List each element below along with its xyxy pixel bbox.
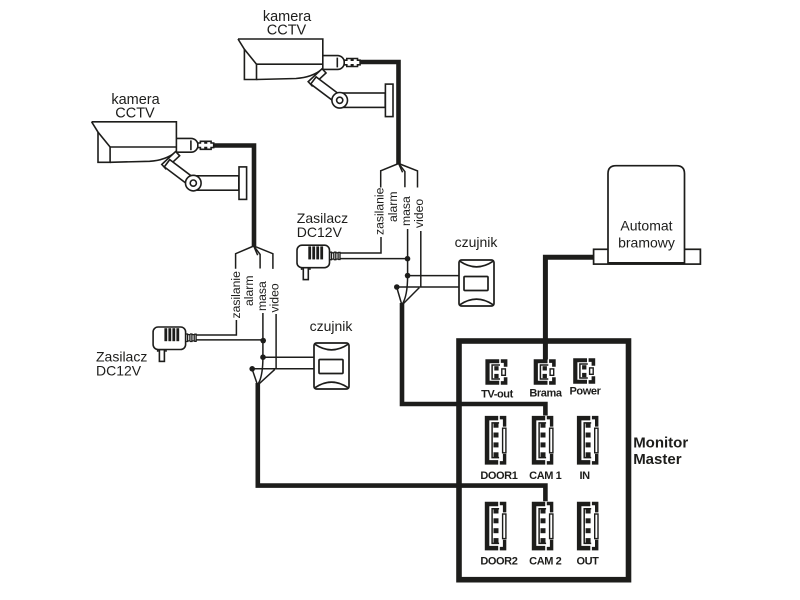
svg-text:DOOR2: DOOR2: [480, 556, 517, 568]
node labels bundle1: zasilanie alarm masa video: [372, 187, 426, 235]
label Zasilacz DC12V bottom: [96, 348, 147, 378]
connector DOOR1: [485, 416, 507, 465]
svg-text:DC12V: DC12V: [96, 363, 142, 379]
svg-text:zasilanie: zasilanie: [372, 187, 386, 235]
svg-text:DOOR1: DOOR1: [480, 470, 517, 482]
camera CCTV 2 (lower): [92, 122, 247, 200]
connector DOOR2: [485, 502, 507, 551]
svg-text:Master: Master: [633, 451, 682, 468]
wire CAM2 inside box: [461, 486, 545, 502]
junction dots bundle1: [394, 256, 410, 290]
svg-text:Automat: Automat: [620, 218, 672, 234]
svg-text:masa: masa: [399, 196, 413, 226]
wire CAM1 inside box: [461, 404, 545, 416]
svg-text:alarm: alarm: [242, 276, 256, 306]
Monitor Master box: [459, 341, 629, 580]
wire psu1 cable lower edge: [340, 258, 407, 260]
svg-text:zasilanie: zasilanie: [229, 271, 243, 319]
wire sensor2 lower: [252, 368, 315, 370]
funnel1: [397, 288, 420, 305]
connector CAM1: [532, 416, 554, 465]
node labels bundle2: zasilanie alarm masa video: [229, 271, 282, 319]
connector Brama: [534, 359, 556, 384]
svg-text:TV-out: TV-out: [481, 389, 514, 401]
wire sensor1 upper: [408, 275, 460, 277]
wire psu2 cable lower edge: [196, 339, 263, 341]
power adapter PSU2: [153, 327, 196, 361]
connector Power: [573, 358, 595, 383]
wire sensor2 upper: [263, 356, 315, 358]
label Zasilacz DC12V top: [297, 210, 348, 240]
connector CAM2: [532, 502, 554, 551]
wire camera1 cable to bundle1: [360, 62, 399, 164]
svg-text:CAM 2: CAM 2: [529, 556, 562, 568]
svg-text:Power: Power: [569, 386, 601, 398]
svg-text:CAM 1: CAM 1: [529, 470, 562, 482]
bundle2 fan-out: [236, 246, 273, 269]
svg-text:Brama: Brama: [529, 388, 563, 400]
sensor czujnik 1: [459, 260, 494, 306]
wire video2: [275, 314, 277, 369]
label kamera CCTV bottom: [111, 92, 160, 121]
svg-text:alarm: alarm: [386, 192, 400, 222]
svg-text:CCTV: CCTV: [267, 23, 307, 39]
wire zasilanie2: [196, 320, 236, 335]
wire zasilanie1: [340, 237, 381, 253]
sensor czujnik 2: [314, 343, 349, 389]
wire Brama inside box: [543, 343, 548, 360]
svg-text:video: video: [268, 283, 282, 312]
junction dots bundle2: [249, 338, 266, 372]
connector IN: [577, 416, 599, 465]
svg-text:OUT: OUT: [576, 556, 599, 568]
wire sensor1 lower: [397, 286, 460, 288]
connector OUT: [577, 502, 599, 551]
svg-text:bramowy: bramowy: [618, 235, 675, 251]
wire CAM1 cable: [402, 303, 545, 415]
connector TV-out: [485, 359, 507, 384]
funnel2: [252, 369, 275, 385]
power adapter PSU1: [297, 245, 340, 279]
wire CAM2 cable: [258, 383, 546, 501]
svg-text:czujnik: czujnik: [310, 318, 354, 334]
camera CCTV 1 (top): [238, 39, 393, 117]
label Monitor Master: [633, 434, 688, 468]
gate automation: Automat bramowy: [594, 166, 701, 264]
label kamera CCTV top: [263, 9, 312, 38]
svg-text:DC12V: DC12V: [297, 224, 343, 240]
wire camera2 cable to bundle2: [214, 146, 254, 247]
svg-text:czujnik: czujnik: [455, 234, 499, 250]
svg-text:Monitor: Monitor: [633, 434, 688, 451]
wire masa1: [402, 229, 407, 304]
svg-text:video: video: [412, 199, 426, 228]
wire video1: [420, 231, 422, 287]
bundle1 fan-out: [381, 164, 418, 188]
svg-text:CCTV: CCTV: [115, 105, 155, 121]
wire masa2: [258, 313, 263, 385]
svg-text:IN: IN: [579, 470, 590, 482]
wire Brama from Automat bramowy: [545, 257, 596, 359]
